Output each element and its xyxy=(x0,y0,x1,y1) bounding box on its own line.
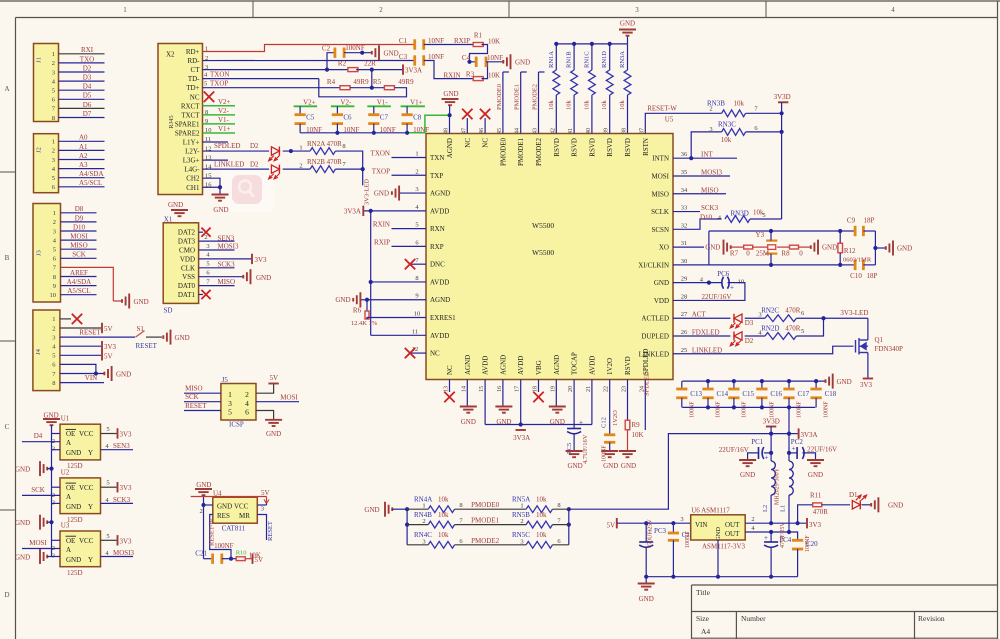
svg-text:9: 9 xyxy=(53,283,56,290)
svg-text:A: A xyxy=(66,439,71,447)
svg-text:TXON: TXON xyxy=(371,150,390,158)
svg-text:5V: 5V xyxy=(104,325,113,333)
svg-text:3: 3 xyxy=(415,186,418,193)
svg-text:C14: C14 xyxy=(717,390,729,398)
X1 pin3 MOSI3 wire xyxy=(199,249,235,251)
svg-text:OE: OE xyxy=(66,537,75,545)
svg-text:GND: GND xyxy=(15,466,30,474)
svg-text:100NF: 100NF xyxy=(805,535,811,552)
svg-text:32: 32 xyxy=(681,222,688,229)
svg-text:3V3: 3V3 xyxy=(255,256,268,264)
X1 pin2 SEN3 wire xyxy=(199,240,235,242)
svg-text:100NF: 100NF xyxy=(345,44,365,52)
W5500 pin12 NC no-connect xyxy=(410,352,426,354)
W5500 pin14 AGND to ground xyxy=(466,380,468,407)
svg-text:SCSN: SCSN xyxy=(651,226,669,234)
svg-text:MISO: MISO xyxy=(651,190,669,198)
svg-text:D2: D2 xyxy=(745,337,754,345)
svg-text:L2: L2 xyxy=(762,505,769,512)
J5 pin2 wire to 5V xyxy=(256,384,274,394)
svg-text:RN3C: RN3C xyxy=(718,121,736,129)
U3 OE pin wire xyxy=(52,539,61,541)
U1 GND pin wire xyxy=(52,449,61,451)
svg-text:100NF: 100NF xyxy=(716,401,722,418)
W5500 pin44 PMODE1 wire xyxy=(520,72,522,134)
svg-text:L1: L1 xyxy=(780,505,787,512)
svg-text:W5500: W5500 xyxy=(532,248,554,257)
svg-text:TXP: TXP xyxy=(430,172,443,180)
svg-text:J1: J1 xyxy=(36,57,43,63)
svg-text:8: 8 xyxy=(52,115,55,122)
svg-text:D8: D8 xyxy=(75,205,84,213)
wire cap cluster bottom rail xyxy=(300,132,407,134)
svg-text:VCC: VCC xyxy=(234,503,249,511)
svg-text:RXCT: RXCT xyxy=(181,102,200,110)
svg-text:C17: C17 xyxy=(798,390,810,398)
svg-text:3V3: 3V3 xyxy=(120,431,133,439)
svg-text:D4: D4 xyxy=(83,83,92,91)
svg-text:GND: GND xyxy=(384,50,399,58)
resistor network RN1C 10k xyxy=(591,95,593,134)
connector J2 xyxy=(34,134,59,193)
resistor R5 49R9 xyxy=(384,86,394,90)
svg-text:J3: J3 xyxy=(36,250,43,256)
svg-text:AGND: AGND xyxy=(430,190,450,198)
inductor L2 MH2029-300Y xyxy=(771,461,775,495)
svg-text:MOSI: MOSI xyxy=(29,539,47,547)
W5500 pin18 VBG no-connect xyxy=(538,380,540,393)
svg-text:+: + xyxy=(579,419,583,427)
svg-text:ICSP: ICSP xyxy=(229,421,244,429)
W5500 pin26 DUPLED wire xyxy=(673,335,730,337)
svg-text:8: 8 xyxy=(415,275,418,282)
svg-text:22: 22 xyxy=(604,386,610,392)
J4 pin3 RESET wire to switch S1 xyxy=(60,336,135,338)
svg-text:V1+: V1+ xyxy=(410,98,423,106)
svg-text:2: 2 xyxy=(245,390,249,399)
svg-text:GND: GND xyxy=(116,371,131,379)
svg-text:10K: 10K xyxy=(632,431,644,439)
svg-text:TXON: TXON xyxy=(210,71,229,79)
svg-text:2: 2 xyxy=(200,508,203,515)
svg-text:R2: R2 xyxy=(338,60,347,68)
svg-text:MOSI3: MOSI3 xyxy=(218,243,240,251)
svg-text:19: 19 xyxy=(550,386,556,392)
W5500 pin20 TOCAP wire with PC5 xyxy=(573,380,575,429)
svg-text:A5/SCL: A5/SCL xyxy=(67,287,90,295)
svg-text:39: 39 xyxy=(604,128,610,134)
svg-text:TOCAP: TOCAP xyxy=(571,352,579,375)
wire 3V3A rail below chip xyxy=(485,424,592,426)
svg-text:GND: GND xyxy=(15,554,30,562)
W5500 pin30 XI/CLKIN wire xyxy=(673,264,840,266)
svg-text:10k: 10k xyxy=(536,511,547,519)
svg-text:TXN: TXN xyxy=(430,154,444,162)
svg-text:ACTLED: ACTLED xyxy=(641,315,669,323)
svg-text:TD-: TD- xyxy=(188,75,200,83)
svg-text:5: 5 xyxy=(52,175,55,182)
svg-text:22R: 22R xyxy=(364,60,376,68)
svg-text:3V3: 3V3 xyxy=(120,537,133,545)
svg-text:A: A xyxy=(4,85,9,93)
svg-text:FDXLED: FDXLED xyxy=(692,329,720,337)
svg-text:3: 3 xyxy=(52,157,55,164)
svg-text:100NF: 100NF xyxy=(797,401,803,418)
svg-text:GND: GND xyxy=(822,244,837,252)
svg-text:10NF: 10NF xyxy=(428,53,444,61)
svg-text:3: 3 xyxy=(635,6,639,14)
LED D2 on SPDLED xyxy=(271,147,279,155)
svg-text:A1: A1 xyxy=(79,143,88,151)
svg-text:L1Y+: L1Y+ xyxy=(183,139,200,147)
svg-text:MISO: MISO xyxy=(70,242,88,250)
W5500 pin45 PMODE0 wire xyxy=(502,72,504,134)
svg-text:DAT3: DAT3 xyxy=(178,238,196,246)
U2 A input wire SCK xyxy=(22,494,60,496)
svg-text:470R: 470R xyxy=(813,508,829,516)
ground symbol for J3 pin7 xyxy=(113,300,121,302)
svg-text:5V: 5V xyxy=(255,556,264,564)
svg-text:PMODE0: PMODE0 xyxy=(471,501,500,509)
resistor R8 0 xyxy=(790,245,799,249)
svg-text:49R9: 49R9 xyxy=(398,78,414,86)
svg-text:3: 3 xyxy=(261,506,264,513)
svg-text:30: 30 xyxy=(681,258,688,265)
svg-text:OE: OE xyxy=(66,484,75,492)
svg-text:3V3A: 3V3A xyxy=(405,67,422,75)
svg-text:SEN3: SEN3 xyxy=(113,442,130,450)
svg-text:3V3: 3V3 xyxy=(809,521,822,529)
wire 3V3D horizontal to RN5 pullups xyxy=(569,434,789,510)
svg-text:+: + xyxy=(730,284,734,292)
svg-text:40: 40 xyxy=(586,128,592,134)
W5500 pin8 AVDD wire xyxy=(371,281,426,283)
svg-text:3: 3 xyxy=(680,516,683,523)
svg-text:GND: GND xyxy=(196,481,211,489)
svg-text:SPDLED: SPDLED xyxy=(214,142,240,150)
title block xyxy=(692,585,998,639)
svg-text:RESET-W: RESET-W xyxy=(647,105,677,113)
svg-text:SPARE2: SPARE2 xyxy=(175,129,200,137)
svg-text:OUT: OUT xyxy=(725,521,740,529)
svg-text:AVDD: AVDD xyxy=(482,356,490,375)
svg-text:L3G+: L3G+ xyxy=(183,157,200,165)
svg-text:1: 1 xyxy=(123,6,127,14)
svg-text:R4: R4 xyxy=(327,78,336,86)
svg-text:C12: C12 xyxy=(601,417,608,428)
svg-text:RXIP: RXIP xyxy=(454,37,470,45)
connector J1 xyxy=(34,44,59,122)
svg-text:Y3: Y3 xyxy=(756,231,765,239)
svg-text:34: 34 xyxy=(681,187,688,194)
svg-text:44: 44 xyxy=(515,128,521,134)
capacitor C12 100NF xyxy=(604,433,615,436)
svg-text:RSVD: RSVD xyxy=(588,138,596,157)
svg-text:R7: R7 xyxy=(730,250,739,258)
svg-text:J4: J4 xyxy=(35,348,42,355)
svg-text:5: 5 xyxy=(801,328,804,335)
svg-text:1: 1 xyxy=(415,151,418,158)
svg-text:RSVD: RSVD xyxy=(624,138,632,157)
W5500 pin46 NC no-connect xyxy=(484,118,486,134)
svg-text:OE: OE xyxy=(66,430,75,438)
W5500 pin32 SCSN wire through RN3D xyxy=(673,219,722,229)
svg-text:MH2029-300Y: MH2029-300Y xyxy=(775,467,781,505)
svg-text:CAT811: CAT811 xyxy=(222,525,246,533)
svg-text:GND: GND xyxy=(897,245,912,253)
svg-text:V2+: V2+ xyxy=(303,98,316,106)
ground bars right of C13-C18 rail xyxy=(832,374,834,389)
capacitor C18 100NF xyxy=(815,381,817,389)
svg-text:PMODE2: PMODE2 xyxy=(532,84,539,110)
svg-text:DNC: DNC xyxy=(430,261,445,269)
U3 VCC pin wire to 3V3 xyxy=(101,539,117,541)
svg-text:X2: X2 xyxy=(166,51,175,59)
svg-text:B: B xyxy=(5,254,10,262)
svg-text:100NF: 100NF xyxy=(214,542,234,550)
svg-text:RES: RES xyxy=(217,512,230,520)
svg-text:3V3A: 3V3A xyxy=(344,207,361,215)
svg-text:A4/SDA: A4/SDA xyxy=(67,278,92,286)
capacitor C13 100NF xyxy=(681,381,683,389)
svg-text:GND: GND xyxy=(461,418,476,426)
svg-text:D1: D1 xyxy=(849,491,858,499)
X2 pin15/16 wires to GND xyxy=(203,178,221,187)
U4 RES pin wire RESET-W xyxy=(210,515,231,559)
wire C13-C18 bottom rail 3V3D xyxy=(682,406,815,408)
svg-text:D2: D2 xyxy=(83,64,92,72)
svg-text:14: 14 xyxy=(461,386,467,392)
svg-text:23: 23 xyxy=(622,386,628,392)
svg-text:Y: Y xyxy=(88,449,93,457)
svg-text:U2: U2 xyxy=(61,468,70,476)
svg-text:35: 35 xyxy=(681,169,688,176)
svg-text:10k: 10k xyxy=(619,100,626,111)
svg-text:VIN: VIN xyxy=(85,374,97,382)
ground symbol below J5 xyxy=(265,419,282,421)
W5500 pin3 AGND stub to ground xyxy=(399,192,426,194)
W5500 pin2 TXP stub xyxy=(392,174,427,176)
svg-text:125D: 125D xyxy=(67,516,83,524)
wire R2 junction to R4/R5 junction xyxy=(371,70,373,88)
svg-text:R11: R11 xyxy=(810,492,822,500)
svg-text:LINKLED: LINKLED xyxy=(692,346,722,354)
svg-text:TXO: TXO xyxy=(80,55,94,63)
svg-text:VSS: VSS xyxy=(182,273,195,281)
svg-text:46: 46 xyxy=(479,128,485,134)
svg-text:RN1C: RN1C xyxy=(583,51,590,68)
wire 5V red line over U4 xyxy=(191,496,267,498)
W5500 pin23 RSVD wire with R9 xyxy=(627,380,629,421)
W5500 pin29 GND wire with PC6 xyxy=(673,282,721,284)
svg-text:38: 38 xyxy=(622,128,628,134)
svg-text:TXOP: TXOP xyxy=(210,80,228,88)
svg-text:U6 ASM1117: U6 ASM1117 xyxy=(691,507,730,515)
svg-text:D2: D2 xyxy=(250,142,259,150)
svg-text:AGND: AGND xyxy=(446,138,454,158)
svg-text:10k: 10k xyxy=(438,531,449,539)
wire C9/C10 right vertical to GND xyxy=(874,231,876,265)
svg-text:VBG: VBG xyxy=(535,360,543,375)
svg-text:C16: C16 xyxy=(770,390,782,398)
wire U6 GND pin to rail xyxy=(717,540,719,577)
wire crystal top rail xyxy=(709,230,840,232)
W5500 pin16 AGND to ground xyxy=(502,380,504,407)
svg-text:25: 25 xyxy=(681,347,688,354)
svg-text:3V3-LED: 3V3-LED xyxy=(364,179,371,205)
U2 VCC pin wire to 3V3 xyxy=(101,486,117,488)
J4 pin8 VIN wire xyxy=(60,382,104,384)
svg-text:C9: C9 xyxy=(847,217,856,225)
svg-text:GND: GND xyxy=(837,378,852,386)
W5500 pin9 AGND wire to ground xyxy=(360,299,426,301)
svg-text:RSVD: RSVD xyxy=(553,138,561,157)
svg-text:R6: R6 xyxy=(353,307,362,315)
3V3A vertical rail left of chip xyxy=(370,211,372,335)
svg-text:RN1B: RN1B xyxy=(566,51,573,68)
svg-text:L4G-: L4G- xyxy=(184,166,200,174)
svg-text:PC5: PC5 xyxy=(566,443,573,454)
W5500 pin43 PMODE2 wire xyxy=(538,72,540,134)
J4 pin4 wire to 3V3 xyxy=(60,345,101,347)
svg-text:RXN: RXN xyxy=(430,225,445,233)
svg-text:Y: Y xyxy=(88,556,93,564)
svg-text:470R: 470R xyxy=(785,307,801,315)
svg-text:3V3D: 3V3D xyxy=(763,418,780,426)
svg-text:A: A xyxy=(66,493,71,501)
svg-text:5: 5 xyxy=(106,480,109,487)
X1 pin1 no-connect xyxy=(199,231,203,233)
svg-text:GND: GND xyxy=(335,296,350,304)
svg-text:RSVD: RSVD xyxy=(606,138,614,157)
J5 pin1 MISO wire xyxy=(184,392,221,394)
svg-text:GND: GND xyxy=(568,462,583,470)
svg-text:8: 8 xyxy=(342,143,345,150)
W5500 pin27 ACTLED wire xyxy=(673,317,730,319)
svg-text:1: 1 xyxy=(52,139,55,146)
svg-text:VDD: VDD xyxy=(654,297,669,305)
svg-text:10: 10 xyxy=(414,311,421,318)
connector J4 xyxy=(33,310,60,391)
svg-text:GND: GND xyxy=(66,503,81,511)
svg-text:28: 28 xyxy=(681,293,688,300)
svg-text:AGND: AGND xyxy=(430,296,450,304)
svg-text:5: 5 xyxy=(206,261,209,268)
svg-text:0603/1MR: 0603/1MR xyxy=(843,257,872,264)
svg-text:10: 10 xyxy=(50,292,57,299)
svg-text:W5500: W5500 xyxy=(532,221,554,230)
U2 OE pin wire xyxy=(52,486,61,488)
svg-text:V2+: V2+ xyxy=(218,98,231,106)
svg-text:4: 4 xyxy=(891,6,895,14)
svg-text:3V3A: 3V3A xyxy=(513,434,530,442)
capacitor C16 100NF xyxy=(761,381,763,389)
svg-text:RN2C: RN2C xyxy=(761,307,779,315)
X2 pin4 TXON wire xyxy=(203,78,319,80)
LED D2 xyxy=(734,332,742,340)
resistor R9 10K xyxy=(625,420,630,430)
svg-text:2: 2 xyxy=(52,60,55,67)
svg-text:EXRES1: EXRES1 xyxy=(430,314,456,322)
svg-text:47UF/25V: 47UF/25V xyxy=(780,522,786,548)
svg-text:2: 2 xyxy=(204,234,207,241)
J4 pin2 wire to 5V xyxy=(60,327,101,329)
svg-text:V2-: V2- xyxy=(340,98,352,106)
svg-text:2: 2 xyxy=(52,325,55,332)
resistor network RN1A 10k xyxy=(555,95,557,134)
svg-text:11: 11 xyxy=(412,328,418,335)
svg-text:1: 1 xyxy=(299,145,302,152)
svg-text:GND: GND xyxy=(888,502,903,510)
svg-text:18: 18 xyxy=(533,386,539,392)
U2 Y output wire SCK3 xyxy=(101,502,134,504)
svg-text:18P: 18P xyxy=(867,272,878,280)
X2 pin2 RD- wire to C3 xyxy=(203,60,415,62)
svg-text:100NF: 100NF xyxy=(689,401,695,418)
X2 pin6 no-connect X xyxy=(204,92,214,102)
svg-text:GND: GND xyxy=(654,279,669,287)
svg-text:5: 5 xyxy=(204,81,207,88)
svg-text:PMODE2: PMODE2 xyxy=(471,537,500,545)
svg-text:U3: U3 xyxy=(61,522,70,530)
capacitor C4 10NF xyxy=(467,60,471,64)
svg-text:31: 31 xyxy=(681,240,688,247)
svg-text:22UF/16V: 22UF/16V xyxy=(702,293,732,301)
J4 pin1 wire with no-connect X xyxy=(60,318,71,320)
svg-text:47: 47 xyxy=(461,128,467,134)
svg-text:10NF: 10NF xyxy=(428,37,444,45)
svg-text:PC3: PC3 xyxy=(654,527,667,535)
svg-text:5V: 5V xyxy=(104,352,113,360)
resistor network RN1B 10k xyxy=(573,95,575,134)
svg-text:MISO: MISO xyxy=(701,186,719,194)
svg-text:2: 2 xyxy=(52,438,55,445)
svg-text:RN1D: RN1D xyxy=(601,51,608,68)
svg-text:INTN: INTN xyxy=(652,155,669,163)
ground bars at C4 xyxy=(510,54,512,69)
svg-text:D2: D2 xyxy=(250,160,259,168)
X2 pin3 CT wire through R2 xyxy=(203,69,350,71)
svg-text:D7: D7 xyxy=(83,110,92,118)
svg-text:RESET: RESET xyxy=(185,402,207,410)
svg-text:VCC: VCC xyxy=(79,537,94,545)
W5500 pin33 SCLK stub xyxy=(673,211,700,213)
svg-text:5: 5 xyxy=(53,247,56,254)
svg-text:GND: GND xyxy=(515,59,530,67)
svg-text:RSVD: RSVD xyxy=(624,356,632,375)
svg-text:RXIN: RXIN xyxy=(443,72,460,80)
svg-text:+: + xyxy=(792,445,796,453)
svg-text:8: 8 xyxy=(557,502,560,509)
svg-text:V1-: V1- xyxy=(218,116,230,124)
ground symbol at S1 xyxy=(170,330,172,345)
U4 GND pin wire xyxy=(204,504,213,506)
svg-text:5: 5 xyxy=(762,212,765,219)
svg-text:VIN: VIN xyxy=(695,521,707,529)
wire U6 OUT pin2 to 3V3 xyxy=(745,522,806,524)
svg-text:AVDD: AVDD xyxy=(588,356,596,375)
svg-text:GND: GND xyxy=(175,334,190,342)
svg-text:Title: Title xyxy=(696,588,711,597)
svg-text:PC1: PC1 xyxy=(751,438,764,446)
svg-text:VCC: VCC xyxy=(79,484,94,492)
W5500 pin37 RSTN wire RESET-W xyxy=(645,113,721,133)
svg-text:GND: GND xyxy=(134,298,149,306)
connector X2 RJ45 xyxy=(158,44,203,195)
svg-text:CH2: CH2 xyxy=(186,175,200,183)
svg-text:SCK: SCK xyxy=(31,486,45,494)
svg-text:GND: GND xyxy=(705,244,720,252)
